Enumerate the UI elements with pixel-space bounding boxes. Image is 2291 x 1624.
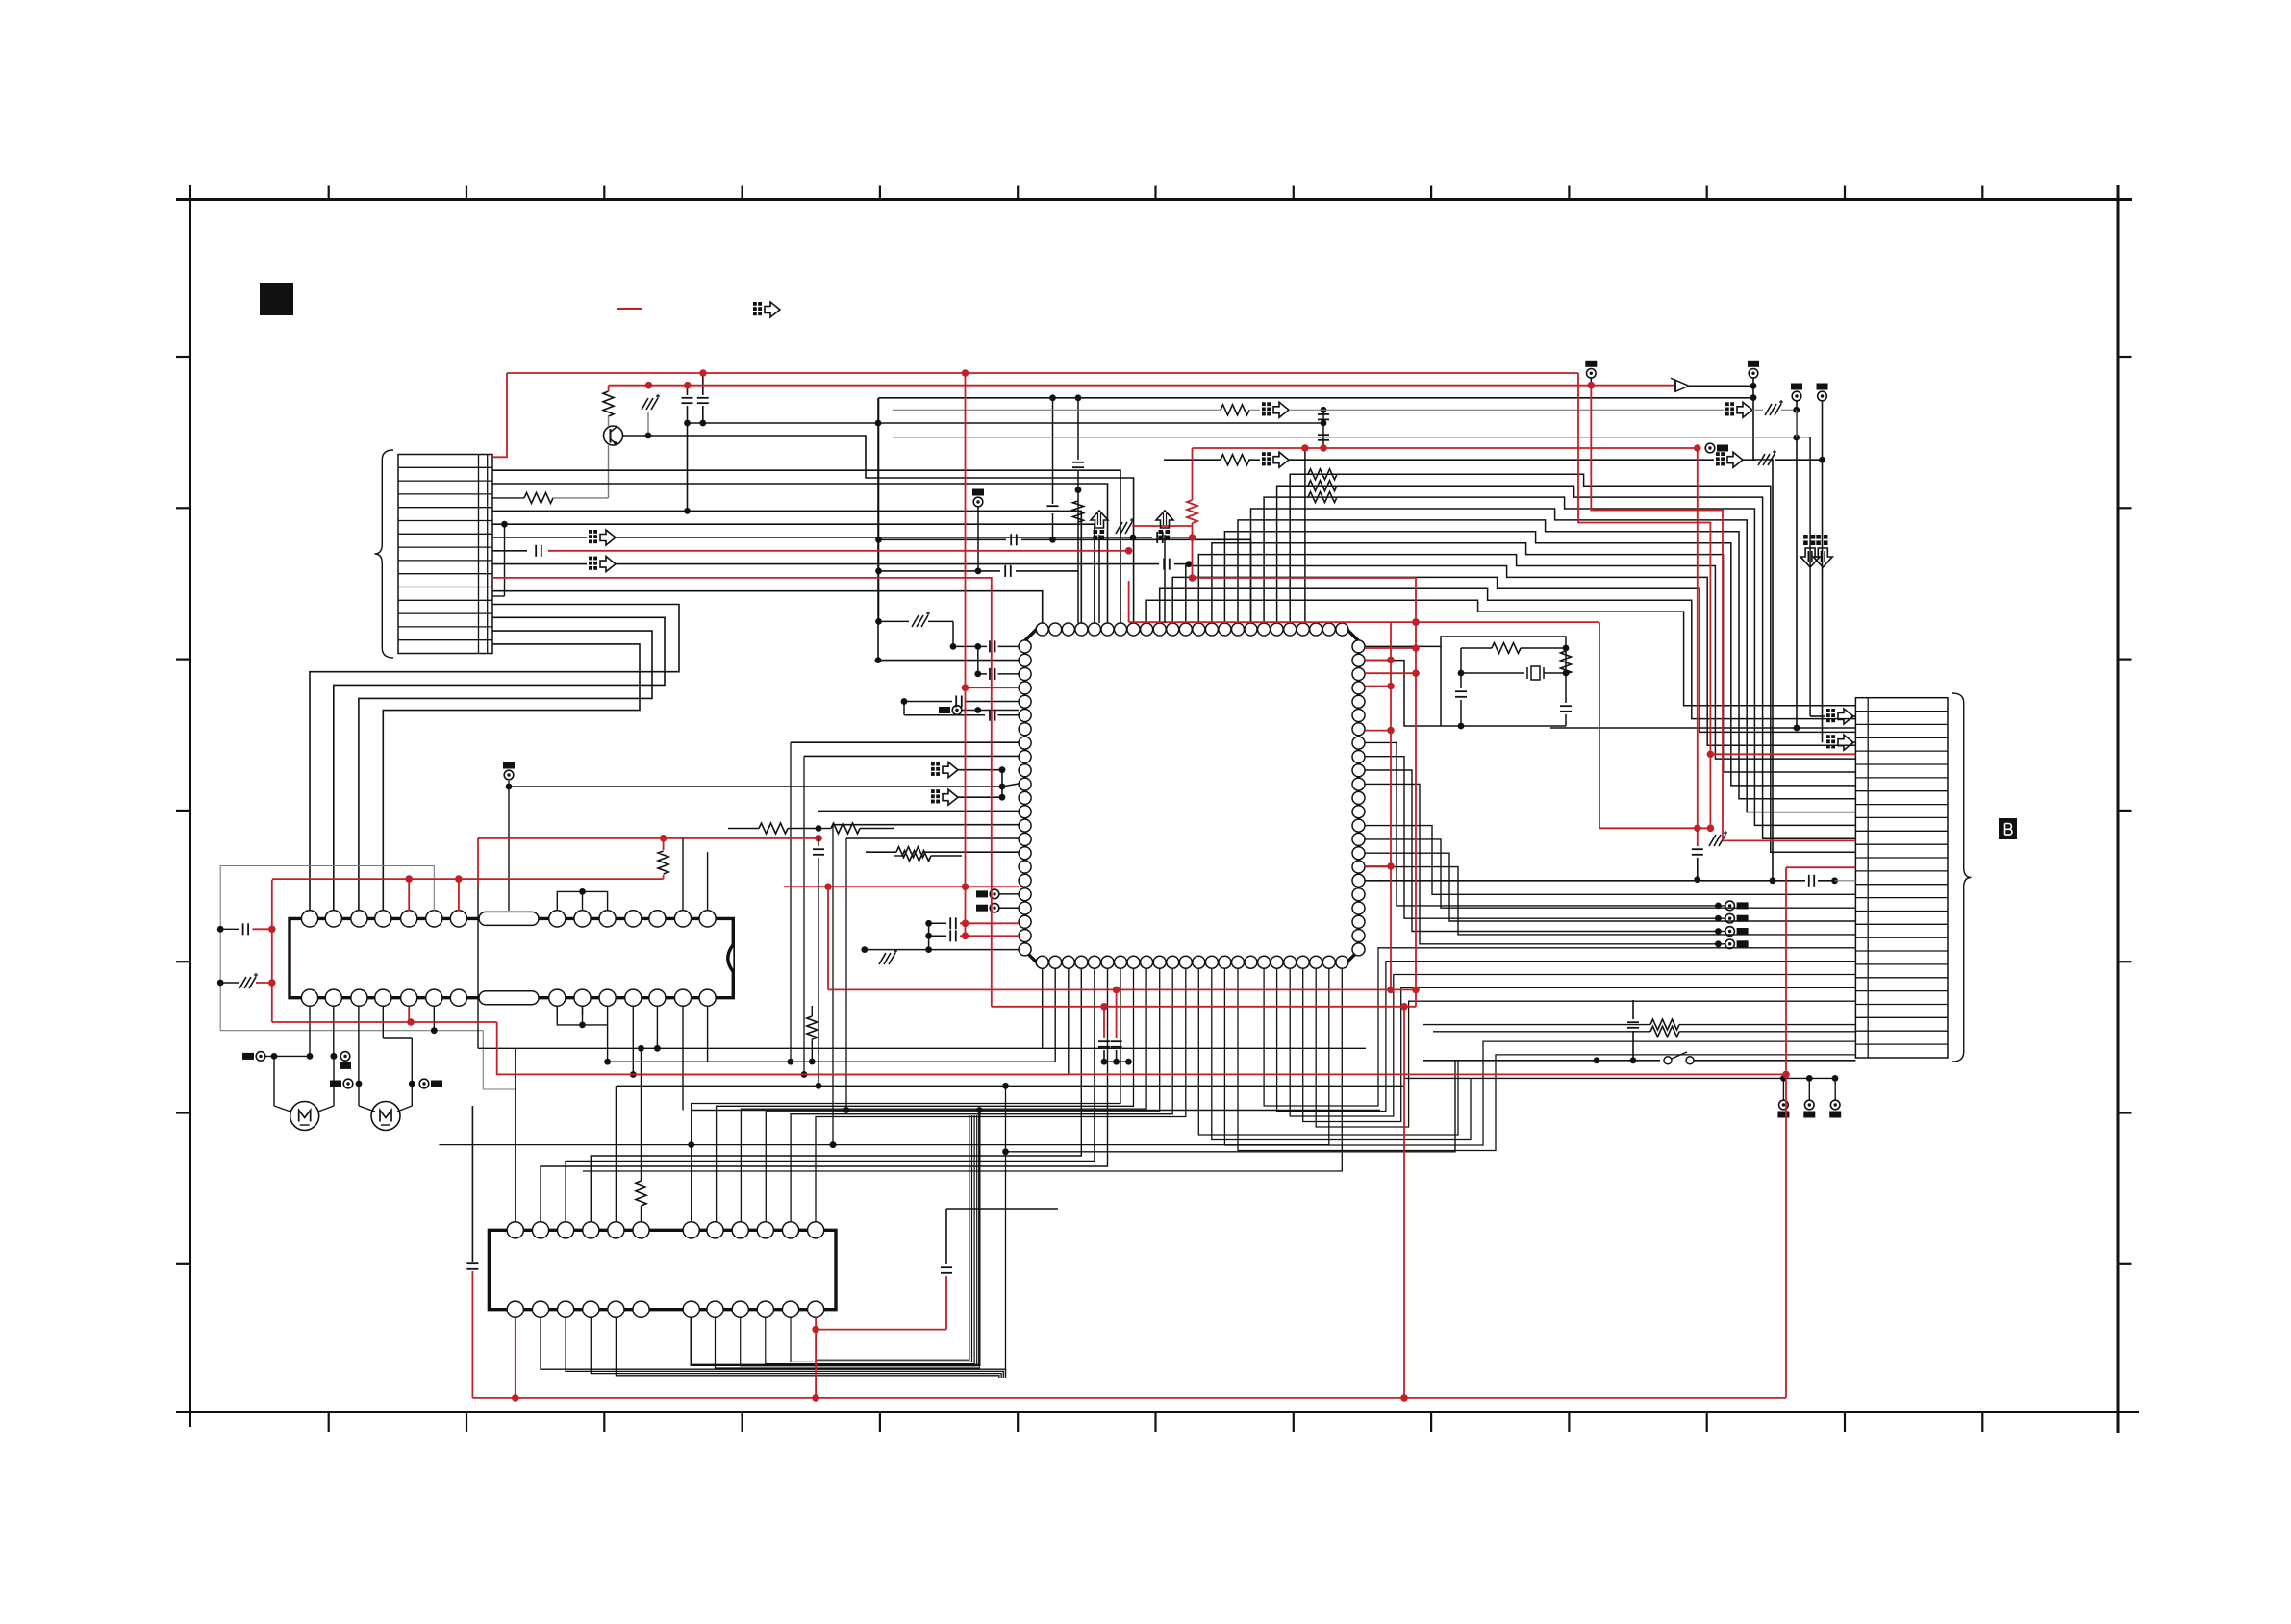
junction D101 <box>1750 383 1757 389</box>
wire qfpL p8 <box>791 741 1019 743</box>
capacitor C613 <box>1052 398 1054 504</box>
wire qfpL p1 cap <box>978 645 987 647</box>
ref label B <box>1999 818 2017 839</box>
wire IC301 bot pin4 <box>591 1317 1001 1378</box>
wire qfpL p3 <box>878 660 1019 662</box>
junction C104 bottom <box>699 420 706 427</box>
wire IC201 pin2 down <box>333 1006 335 1056</box>
red wire comb pin1 riser <box>492 373 507 457</box>
resistor R101 <box>603 391 614 416</box>
wire qfpR mid lead 2 <box>1365 770 1718 932</box>
red stub qfpR6 <box>1365 672 1416 674</box>
resistor R210 <box>663 875 665 879</box>
wire IC601 top pin19 staircase <box>1277 486 1856 838</box>
junction grey <box>431 1027 438 1034</box>
wire IC301 bot pin8 <box>716 1115 980 1368</box>
legend arrow symbol <box>753 302 757 306</box>
diode D101 <box>1689 385 1753 387</box>
red drop 497 <box>477 838 479 885</box>
legend black square <box>260 283 293 315</box>
bridge IC201 bottom <box>557 1006 607 1025</box>
capacitor C231 <box>1692 848 1703 850</box>
grey line y455 <box>893 437 1797 438</box>
wire IC201 pin10b down <box>607 1025 609 1062</box>
wire pad bus y414 <box>879 397 1754 399</box>
wire qfpR mid lead 0 <box>1365 742 1718 906</box>
red bottom bus <box>472 1397 1786 1399</box>
wire IC201 pin11 down <box>632 1006 634 1074</box>
wire IC601 bot pin16 east <box>1238 968 1855 1150</box>
bridge IC201 top <box>557 891 607 911</box>
capacitor C211 <box>818 838 819 846</box>
red h647 <box>1129 621 1599 623</box>
arrow qfpL p10 <box>931 762 935 766</box>
capacitor C621 <box>925 933 932 939</box>
wire IC601 bot pin22 riser <box>1316 968 1855 1127</box>
wire IC601 bot pin9 <box>741 968 1146 1222</box>
wire IC201 pin12 down <box>656 1006 658 1048</box>
red riser 1857 <box>1785 867 1787 1398</box>
pads TP301-TP303 <box>1782 1078 1784 1100</box>
wire R102-Q101 <box>608 445 610 498</box>
switch S201 <box>1664 1057 1672 1064</box>
arrow up B <box>1156 511 1173 528</box>
capacitor C210 <box>217 926 224 933</box>
wire IC601 bot pin12 <box>816 968 1186 1222</box>
motor M101 <box>290 1102 319 1131</box>
wire qfpR lead 3 <box>1365 867 1855 935</box>
capacitor C612 <box>879 570 1001 572</box>
wire CN101 p2 <box>492 470 1120 623</box>
red stub qfpR3 <box>1365 730 1391 732</box>
wire CN101 p12 to IC201 <box>310 605 679 912</box>
wire IC301 bot pin10 <box>766 1115 974 1364</box>
red h1029 <box>828 988 1416 990</box>
line y480 arrow <box>1164 459 1221 461</box>
ground G610 <box>1116 522 1122 534</box>
wire IC601 bot pin18 riser <box>1264 948 1855 1106</box>
red IC201 bottom rail <box>272 1021 497 1023</box>
red v1472 <box>1415 578 1417 1007</box>
wire y440 ext <box>878 422 1323 424</box>
resistor R213 <box>894 855 902 857</box>
wire IC601 top pin16 staircase <box>1238 520 1855 799</box>
wire TP103 column <box>1796 401 1798 728</box>
wire IC301 bot pin9 <box>741 1115 977 1366</box>
pad TP103 <box>1792 391 1801 401</box>
arrow net down A <box>1803 535 1808 539</box>
red bus2 right <box>1591 386 1723 841</box>
wire IC301 bot pin11 <box>791 1115 972 1362</box>
ground G201 <box>217 980 224 987</box>
wire IC601 bot pin13 east <box>1198 968 1458 1135</box>
wire bus 1102 <box>1423 1060 1597 1062</box>
red v861 <box>827 887 829 989</box>
wire qfpL p7 cap <box>904 714 985 716</box>
grey line y426 <box>893 409 1221 411</box>
wire IC601 bot pin11 <box>791 968 1172 1222</box>
red gnd col <box>1709 754 1711 828</box>
wire qfpR mid lead 3 <box>1365 784 1718 943</box>
wire IC301 bot pin12 <box>816 1115 969 1360</box>
wire IC301 pin5 up <box>615 1086 617 1222</box>
wire riser 965 <box>928 923 930 949</box>
wire IC601 top pin12 staircase <box>1186 566 1856 746</box>
wire IC601 bot pin20 riser <box>1290 968 1855 1116</box>
red v1173 <box>1128 581 1130 622</box>
red h466 <box>1193 447 1698 449</box>
capacitor C104 <box>702 373 704 395</box>
red IC301 right loop <box>815 1317 817 1398</box>
pad TP105 <box>1705 443 1715 453</box>
transistor Q101 <box>604 426 623 445</box>
wire bus 1121 <box>1404 1077 1835 1079</box>
wire IC201 pin14 down <box>707 1006 709 1062</box>
connector CN201 brace <box>1952 693 1972 1062</box>
wire crystal bottom <box>1441 725 1566 727</box>
wire IC601 top pin10 staircase <box>1160 588 1856 718</box>
red comb lead 902 <box>1786 866 1855 868</box>
red pad col <box>1697 448 1699 846</box>
red bus2 stub <box>608 386 610 391</box>
pad M101a <box>256 1052 265 1062</box>
red IC301 pin1b <box>515 1317 516 1398</box>
arrow comb lead 745 <box>1810 715 1825 717</box>
pad M102a sym <box>343 1079 353 1088</box>
red IC201 pin5 stub <box>408 879 410 911</box>
wire qfpL p9 <box>804 755 1019 757</box>
red v1446 <box>1390 622 1392 989</box>
wire IC201 pin4 down <box>382 1006 384 1038</box>
ground G101 <box>642 398 648 410</box>
wire IC601 top pin13 staircase <box>1198 555 1855 760</box>
pad M101b <box>331 1053 338 1060</box>
pad M102b <box>409 1081 415 1087</box>
wire 497 down <box>477 885 479 1048</box>
wire TP102 column <box>1752 378 1754 460</box>
wire IC601 bot pin3 <box>633 968 1069 1074</box>
legend red wire sample <box>617 308 642 310</box>
capacitor C202 <box>1565 673 1567 703</box>
wire IC601 bot pin19 riser <box>1277 962 1856 1112</box>
wire IC601 bot pin7 <box>692 968 1120 1222</box>
wire corner 1513 <box>1006 1061 1456 1152</box>
red IC201 left col <box>271 880 273 1022</box>
red IC201 pin7 stub <box>458 879 460 911</box>
wire IC601 bot pin14 east <box>1212 968 1471 1139</box>
connector CN101 brace <box>375 450 394 658</box>
wire IC601 bot pin24 west <box>583 968 1342 1171</box>
wire IC601 bot pin5 <box>566 968 1095 1222</box>
IC301 DIP pins <box>507 1222 523 1238</box>
wire comb lead 757 <box>1550 727 1855 729</box>
arrow qfpL p12 <box>931 789 935 793</box>
capacitor column C616 <box>1322 410 1324 448</box>
wire IC601 top pin14 staircase <box>1212 543 1856 772</box>
wire TP104 column <box>1822 401 1824 742</box>
wire qfpR p2 <box>1365 661 1441 726</box>
ground G620 <box>879 620 910 622</box>
wire crystal box <box>1365 637 1566 648</box>
wire IC301 bot pin5 <box>616 1317 999 1378</box>
red bus1 right <box>1578 373 1710 754</box>
wire IC601 top pin9 staircase <box>1146 600 1855 706</box>
wire CN101 p9 arrow <box>492 563 587 565</box>
wire IC201 stadium top <box>508 787 510 911</box>
wire IC601 bot pin2 <box>608 968 1056 1062</box>
red v1663 <box>1599 622 1600 828</box>
pad TP106 <box>973 497 983 507</box>
motor M102 <box>371 1102 400 1131</box>
wire IC601 top pin11 staircase <box>1172 577 1855 732</box>
red stub qfpL pin4 <box>966 687 1020 688</box>
red comb lead601 <box>548 550 1129 552</box>
capacitor C303 <box>941 1266 952 1268</box>
red v1005 <box>965 373 967 936</box>
pad TP104 <box>1818 391 1827 401</box>
wire IC601 top pin17 staircase <box>1251 509 1856 812</box>
frame tick marks <box>328 186 330 200</box>
IC201 DIP body <box>290 918 733 997</box>
pad TP101 <box>1587 369 1597 379</box>
red bus2 <box>609 385 1674 387</box>
wire CN101 p3 <box>492 484 1108 623</box>
capacitor C201 <box>1460 673 1462 688</box>
resistor R102 <box>492 497 524 499</box>
red stub qfpR4 <box>1365 865 1391 867</box>
wire qfpL riser <box>977 646 979 674</box>
wire grey loop <box>220 866 516 1090</box>
wire CN101 p15 to IC201 <box>383 644 640 911</box>
wire IC301 pin6 up <box>641 1206 642 1222</box>
wire qfpL p2b <box>978 673 987 675</box>
wire CN101 p7 arrow <box>492 537 587 538</box>
pads TP201-TP204 <box>1715 903 1722 910</box>
pad TP102 <box>1749 369 1758 379</box>
wire IC601 top pin15 staircase <box>1224 532 1855 786</box>
border frame bottom <box>176 1411 2139 1413</box>
red IC301 cap left <box>471 1271 473 1398</box>
red caps under qfp <box>1103 1007 1105 1038</box>
red comb lead 874 <box>1723 839 1855 841</box>
wire IC601 bot pin1 bus <box>478 968 1043 1048</box>
red comb lead601b <box>492 578 992 1007</box>
crystal X201 <box>1458 670 1465 677</box>
resistor R201 <box>1461 647 1492 649</box>
arrow net down B <box>1816 535 1821 539</box>
junction p6 branch <box>501 521 508 528</box>
junction Q101 base <box>645 433 652 439</box>
wire M101 right lead <box>333 1056 335 1106</box>
wire IC601 top pin20 staircase <box>1290 474 1855 852</box>
arrow comb lead 772 <box>1826 735 1830 738</box>
resistor R212 <box>818 828 831 830</box>
capacitor C620 <box>925 920 932 927</box>
pad M102a <box>356 1081 363 1087</box>
red stub qfpR1 <box>1365 659 1391 661</box>
pad qfpL2 <box>990 889 999 899</box>
wire qfpL p5 cap <box>904 701 952 703</box>
red IC201 pin5b stub <box>408 1006 410 1022</box>
wire caps bus <box>688 422 879 424</box>
red caps under qfp2 <box>1116 989 1118 1038</box>
wire G101 down <box>647 412 649 436</box>
wire cap line <box>1365 880 1773 882</box>
wire Q101 collector <box>622 436 1134 623</box>
red IC201 top rail <box>272 878 664 880</box>
IC601 QFP pins <box>1036 623 1048 636</box>
IC201 DIP pins <box>301 911 317 927</box>
resistor R211 <box>728 828 759 830</box>
resistor R215 <box>807 1016 818 1039</box>
border frame right <box>2117 185 2120 1433</box>
wire IC601 bot pin23 west <box>439 968 1328 1144</box>
connector CN201 body <box>1855 698 1948 1058</box>
wire IC601 bot pin10 <box>766 968 1159 1222</box>
wire qfpR lead 0 <box>1365 826 1855 895</box>
red h922 <box>784 886 1019 887</box>
resistor qfpL R <box>866 851 896 853</box>
capacitor C614 <box>1077 398 1079 460</box>
capacitor C611 <box>879 538 1007 540</box>
wire bus 1090b <box>1043 1047 1366 1049</box>
wire IC601 top pin18 staircase <box>1264 497 1855 825</box>
junction p5 <box>684 508 691 514</box>
wire R101-Q101 <box>608 416 610 426</box>
red stub qfpR5 <box>1365 647 1416 649</box>
capacitor C301 <box>1632 1031 1634 1061</box>
wire CN101 p11 <box>492 591 1043 623</box>
wire IC301 pin1 up <box>515 1089 516 1222</box>
wire IC601 bot pin4 <box>591 968 1081 1222</box>
red stub qfpR2 <box>1365 686 1391 687</box>
border frame left <box>189 185 191 1427</box>
red comb lead 784 <box>1710 753 1855 755</box>
wire caps riser <box>877 398 879 423</box>
wire IC601 bot pin15 east <box>1224 968 1855 1145</box>
red v1460 <box>1403 1007 1405 1398</box>
wire IC301 bot pin2 <box>541 1317 1006 1378</box>
red h601 east <box>1193 577 1417 579</box>
red h861 <box>1599 827 1710 829</box>
red rail 872 <box>478 837 818 839</box>
wire v913 col <box>878 398 880 622</box>
junction C103 bottom <box>684 420 691 427</box>
wire IC201 pin14 up <box>707 852 709 911</box>
red bus1 <box>507 372 1578 374</box>
resistor R302 <box>1433 1031 1650 1033</box>
wire TP101 <box>1590 378 1592 386</box>
wire qfpL p15 <box>846 837 1019 839</box>
IC301 DIP body <box>489 1230 836 1309</box>
resistor R303 <box>636 1181 646 1206</box>
capacitor C230 <box>1773 880 1805 882</box>
wire pin18 column <box>1304 448 1306 623</box>
wire IC201 pin8 stub <box>556 1006 558 1019</box>
wire IC601 bot pin6 <box>541 968 1108 1222</box>
capacitor C302 <box>466 1262 478 1264</box>
connector CN101 body <box>398 455 492 654</box>
wire qfpL p14 <box>833 824 1019 826</box>
wire IC301 bot pin3 <box>566 1317 1003 1378</box>
wire col 1882 <box>1797 437 1810 438</box>
wire IC601 bot pin21 riser <box>1303 968 1856 1121</box>
wire IC201 pin3 down <box>358 1006 360 1084</box>
red h1046 <box>992 1006 1416 1008</box>
resistor R202 <box>1561 651 1572 674</box>
wire CN101 p13 to IC201 <box>334 617 665 911</box>
wire thick riser <box>692 1111 980 1365</box>
resistor R214 <box>582 1006 584 1015</box>
IC601 QFP body <box>1025 630 1359 962</box>
wire qfpR lead 2 <box>1365 853 1855 921</box>
red path to bottom <box>497 1022 1786 1074</box>
wire IC201 pin1 down <box>309 1006 311 1056</box>
wire IC201 pin13 down <box>682 1006 684 1110</box>
arrow up A <box>1091 511 1108 528</box>
wire riser 1043 <box>1005 1086 1007 1376</box>
pad qfpL3 <box>990 903 999 912</box>
wire IC601 bot pin8 <box>717 968 1134 1222</box>
resistor R301 <box>1423 1024 1650 1026</box>
red v1239 resistor <box>1192 448 1194 500</box>
wire bus 1154 <box>692 1110 1380 1112</box>
capacitor C101 <box>492 550 527 552</box>
border frame top <box>176 198 2132 201</box>
wire IC201 pin13 up <box>682 838 684 911</box>
wire col 866 <box>832 825 834 1145</box>
pad qfpL <box>952 706 962 715</box>
wire CN101 p6 <box>492 524 1095 623</box>
wire CN101 p14 to IC201 <box>359 631 652 911</box>
wire qfpR mid lead 1 <box>1365 757 1718 919</box>
wire qfpR lead 1 <box>1365 839 1855 908</box>
wire M101 left lead <box>273 1056 275 1106</box>
wire bus 1129 <box>616 1085 1404 1087</box>
wire CN101 p5 <box>492 511 1081 623</box>
wire qfpL p13 <box>818 810 1019 812</box>
capacitor C103 <box>687 386 689 395</box>
